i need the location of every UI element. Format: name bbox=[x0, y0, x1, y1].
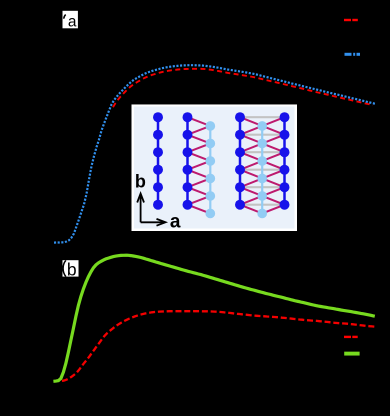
svg-text:b: b bbox=[135, 171, 146, 191]
svg-text:b: b bbox=[67, 259, 77, 279]
svg-text:a: a bbox=[170, 212, 181, 233]
svg-text:a: a bbox=[68, 14, 77, 31]
